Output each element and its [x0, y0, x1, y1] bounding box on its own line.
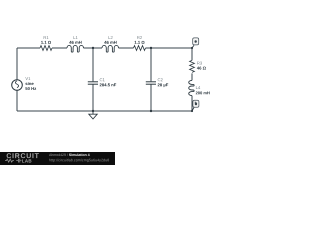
node junction dot bottom of C1 at ground	[92, 110, 94, 112]
node a terminal dot	[191, 47, 193, 49]
wire C1 branch upper	[92, 48, 94, 81]
resistor R1	[40, 36, 52, 50]
node junction dot top of C2	[150, 47, 152, 49]
label C2 value 28 uF	[158, 83, 169, 87]
footer logo resistor zigzag	[5, 159, 14, 162]
wire C1 branch lower	[92, 85, 94, 112]
wire between L2 and R2	[119, 47, 134, 49]
capacitor C2	[146, 78, 168, 87]
label L4 name	[196, 86, 200, 89]
node junction dot bottom of C2	[150, 110, 152, 112]
footer credit line 2 url	[49, 159, 109, 162]
inductor L4	[189, 80, 210, 95]
node junction dot top of C1	[92, 47, 94, 49]
wire top-left segment	[17, 47, 40, 49]
label L2 name	[109, 36, 113, 39]
node b terminal dot	[191, 110, 193, 112]
resistor R3	[190, 60, 206, 72]
wire between R1 and L1	[52, 47, 67, 49]
label R3 value 46 Ohm	[197, 67, 206, 70]
wire left rail upper (V1 to top)	[16, 48, 18, 80]
inductor L1	[67, 36, 84, 52]
resistor R2	[134, 36, 146, 50]
wire right rail upper (node a to R3)	[191, 48, 193, 60]
wire between R2 and node a	[146, 47, 193, 49]
label V1 value sine 50 Hz	[25, 82, 33, 85]
wire left rail lower (V1 to bottom)	[16, 90, 18, 111]
label V1 name	[25, 77, 30, 80]
label R2 name	[137, 36, 142, 39]
wire bottom rail	[17, 110, 192, 112]
wire between L1 and L2 through node at C1	[84, 47, 103, 49]
footer CircuitLab logo CIRCUIT wordmark	[7, 153, 39, 158]
node a label flag	[192, 38, 199, 48]
wire C2 branch upper	[150, 48, 152, 81]
label L4 value 200 mH	[196, 92, 210, 95]
footer watermark bar	[0, 152, 115, 165]
label L2 value 46 mH	[104, 41, 116, 44]
footer credit line 1	[49, 153, 68, 156]
footer logo capacitor symbol	[17, 159, 19, 163]
label L1 value 46 mH	[69, 41, 81, 44]
footer logo LAB wordmark	[22, 159, 31, 162]
inductor L2	[102, 36, 119, 52]
node b label flag	[192, 100, 199, 111]
label R1 name	[44, 36, 49, 39]
label C1 name	[100, 78, 105, 81]
capacitor C1	[88, 78, 116, 86]
voltage source V1	[12, 77, 36, 90]
label C1 value 284.5 nF	[100, 83, 117, 86]
label L1 name	[74, 36, 78, 39]
label R3 name	[197, 62, 202, 65]
label C2 name	[158, 78, 163, 81]
label R2 value 1.1 Ohm	[135, 41, 145, 44]
wire between R3 and L4	[191, 73, 193, 80]
label R1 value 1.1 Ohm	[41, 41, 51, 44]
ground	[89, 111, 97, 119]
wire C2 branch lower	[150, 85, 152, 112]
wire right rail lower (L4 to node b)	[191, 96, 193, 111]
